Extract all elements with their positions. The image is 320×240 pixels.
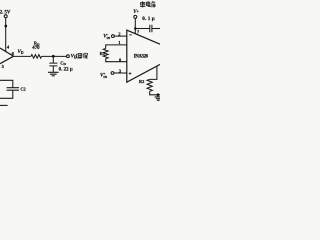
svg-text:INA326: INA326 xyxy=(134,54,149,59)
resistor R1 xyxy=(103,48,108,58)
junction node VD xyxy=(52,55,55,58)
terminal VD out xyxy=(67,55,70,58)
svg-text:0. 22 μ: 0. 22 μ xyxy=(59,67,73,72)
inverting input minus sign xyxy=(129,34,132,36)
wire output branch down from lower edge xyxy=(150,66,157,79)
non-inverting input plus sign xyxy=(129,72,132,75)
wire V+ node to bypass cap xyxy=(135,28,150,30)
wire Vin- to pin 2 xyxy=(114,35,126,37)
terminal V+ xyxy=(134,15,137,18)
svg-text:VD: VD xyxy=(18,50,24,55)
wire V+ terminal down xyxy=(134,19,136,34)
svg-text:R2: R2 xyxy=(139,79,144,84)
svg-text:CD: CD xyxy=(60,60,66,66)
wire bypass cap to right edge xyxy=(152,28,160,30)
capacitor C2 loop top wire xyxy=(0,80,13,87)
svg-text:R1: R1 xyxy=(100,51,105,56)
wire R2 to bottom rail xyxy=(150,91,160,95)
op-amp U1 INA326 (apex cut at right edge) xyxy=(127,30,160,82)
svg-text:C2: C2 xyxy=(20,87,25,92)
ground bottom right xyxy=(155,95,161,101)
terminal 2.5V xyxy=(4,15,7,18)
wire op-amp A output to resistor RD xyxy=(14,55,32,57)
op-amp A1 (cut at left edge) xyxy=(0,48,14,64)
ground below CD xyxy=(48,72,59,76)
wire pin 1 to R1 xyxy=(106,45,127,49)
wire stub bottom left xyxy=(0,104,8,106)
capacitor C2 xyxy=(7,88,19,91)
capacitor C2 loop bottom wire xyxy=(0,90,13,98)
svg-text:0. 1 μ: 0. 1 μ xyxy=(142,16,155,22)
junction on 2.5V wire xyxy=(4,25,7,28)
wire VD node down to capacitor CD xyxy=(52,58,54,64)
resistor R2 xyxy=(147,79,152,91)
wire RD to VD terminal xyxy=(42,55,67,57)
svg-text:470: 470 xyxy=(32,46,40,51)
wire CD to ground xyxy=(52,66,54,72)
resistor RD xyxy=(31,55,42,59)
chinese label single supply xyxy=(140,1,155,7)
junction V+ node xyxy=(134,27,137,30)
chinese label lvbo (filtered) xyxy=(76,53,88,58)
terminal Vin- xyxy=(112,35,115,38)
terminal Vin+ xyxy=(111,72,114,75)
svg-text:VD: VD xyxy=(71,55,77,60)
junction bottom rail xyxy=(157,93,160,96)
wire R1 to pin 8 xyxy=(106,59,127,62)
capacitor 0.1u bypass xyxy=(150,25,152,32)
capacitor CD xyxy=(49,63,57,66)
wire Vin+ to pin 3 xyxy=(114,72,127,74)
wire from 2.5V terminal to op-amp A pin 4 xyxy=(5,18,7,52)
svg-text:V+: V+ xyxy=(133,10,139,15)
